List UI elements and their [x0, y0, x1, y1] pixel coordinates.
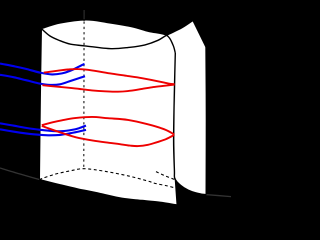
hidden bottom arc of front panel (dashed): [39, 169, 174, 188]
axis / stacking dashed line: [83, 22, 85, 169]
top edge arc of front panel: [41, 20, 175, 53]
wrapped blade 1 pressure-side curve (blue): [0, 75, 85, 85]
wrapped blade 2 pressure-side curve (blue): [0, 129, 86, 135]
cylinder sector panel rear/right face (white fill): [41, 20, 206, 194]
blade profile 1 upper surface (red): [44, 69, 175, 84]
left generator line: [39, 29, 41, 180]
wrapped blade 1 suction-side curve (blue): [0, 64, 85, 75]
rear panel top-right edge: [193, 20, 206, 47]
blade profile 1 lower surface (red): [42, 85, 174, 92]
wrapped blade 2 suction-side curve (blue): [0, 123, 86, 131]
blade profile 2 upper surface (red): [42, 117, 174, 134]
axis / stacking line solid top segment: [83, 10, 85, 21]
top edge arc of rear panel: [41, 20, 193, 48]
right generator of rear panel: [205, 47, 207, 195]
cylinder sector panel front face (white fill): [39, 20, 176, 205]
big bottom rim arc: [39, 180, 176, 205]
bottom rim tail beyond rear generator (dim): [206, 195, 231, 197]
hidden bottom arc of rear panel (dashed): [156, 172, 174, 180]
big bottom rim arc outside silhouette (dim): [0, 168, 39, 180]
right generator of front panel with bottom tangent sweep: [174, 53, 207, 195]
blade profile 2 lower surface (red): [42, 126, 174, 146]
